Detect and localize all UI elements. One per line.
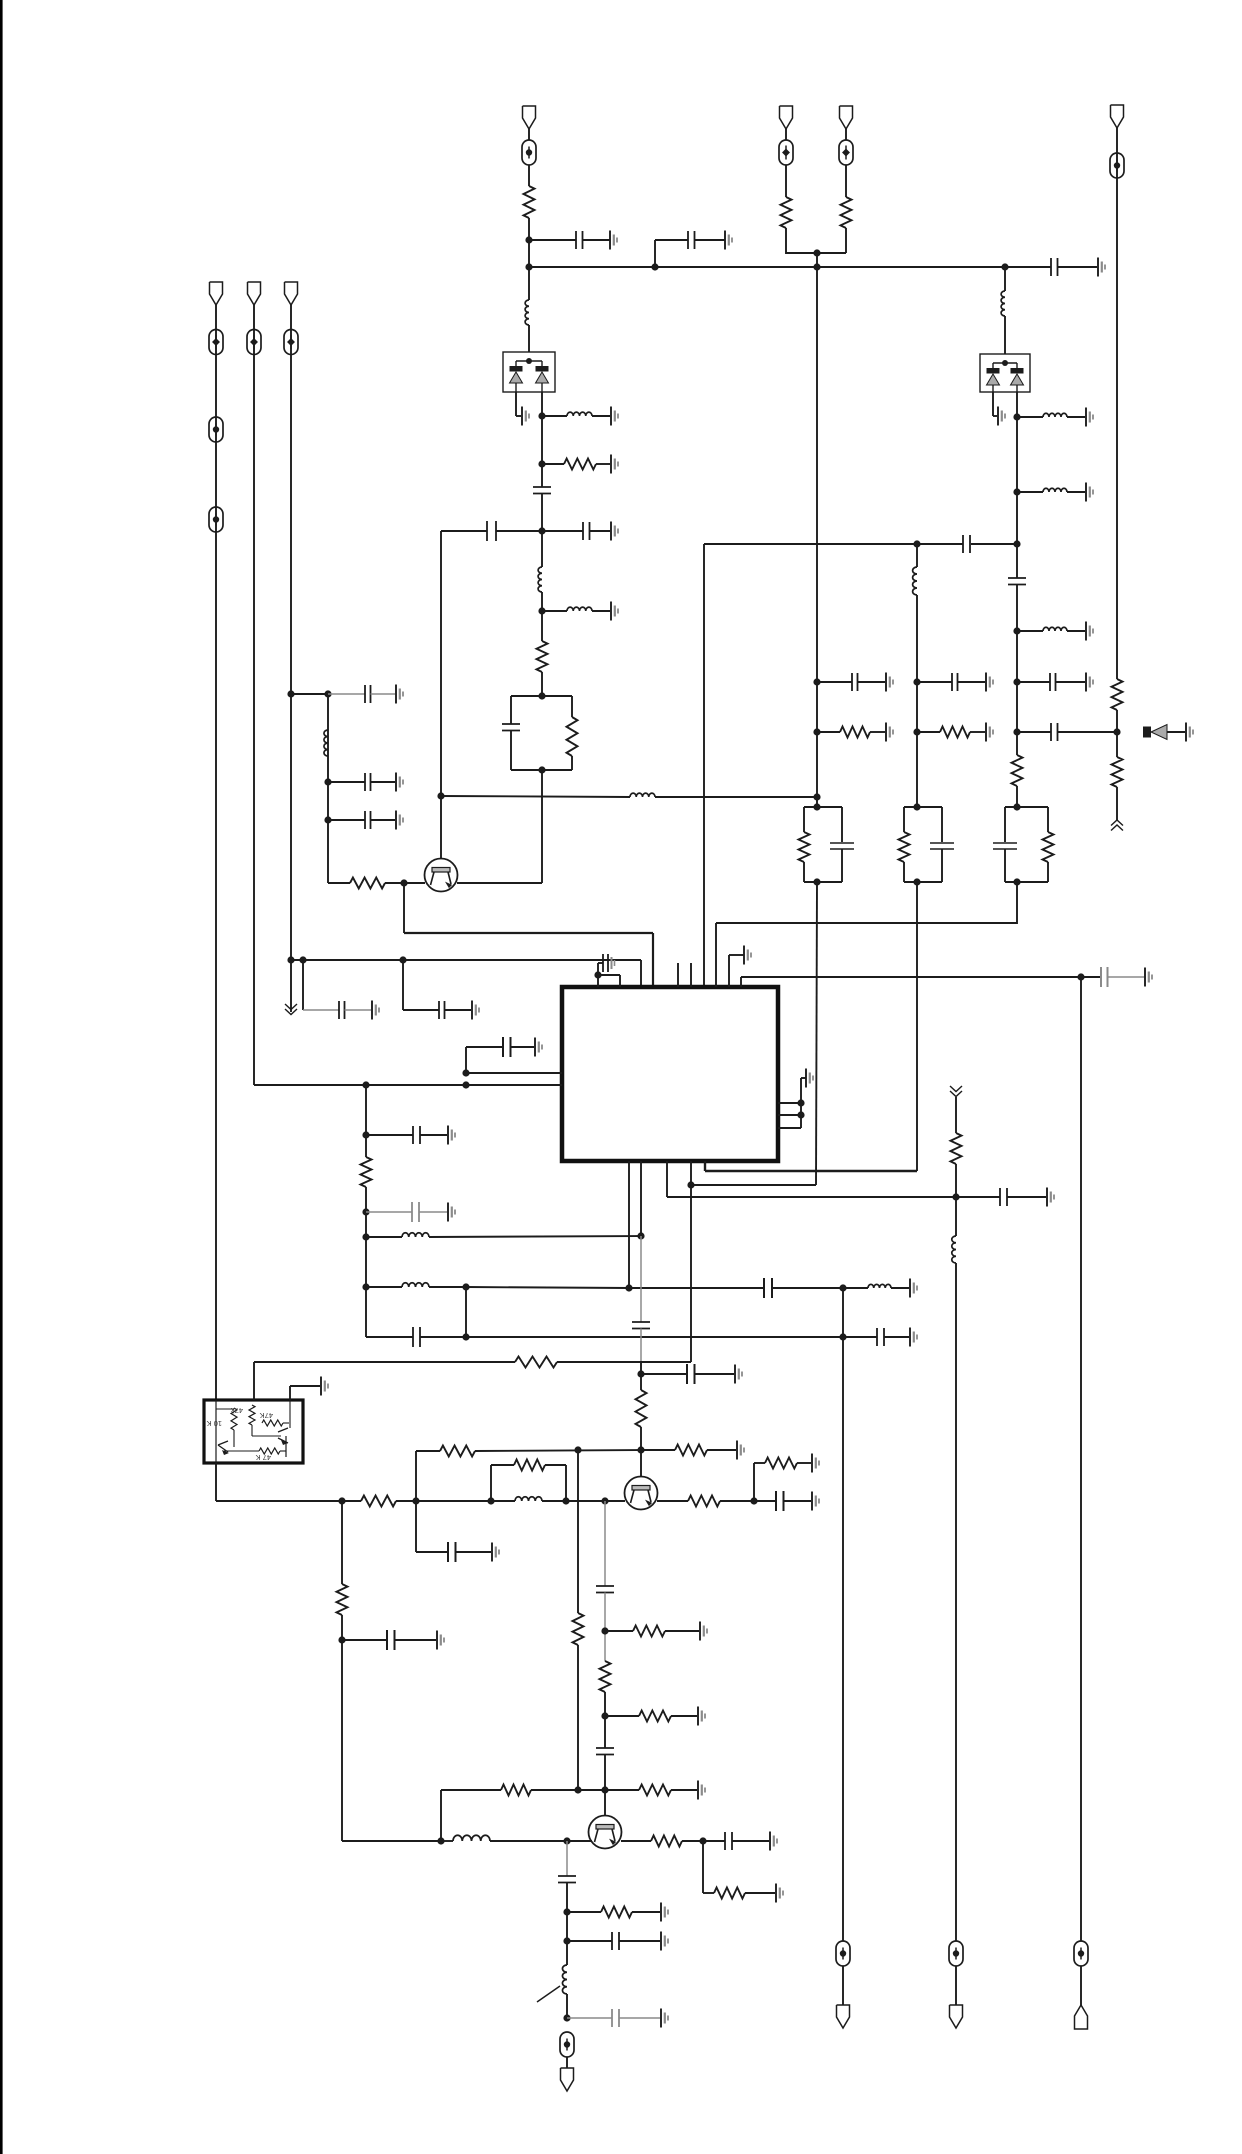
- node H4: [601, 1786, 608, 1793]
- capacitor C5: [542, 522, 610, 540]
- wire: [655, 796, 817, 798]
- node D1j: [839, 1333, 846, 1340]
- ground: [698, 1707, 705, 1726]
- wire tank2 out: [916, 882, 918, 1171]
- ground: [812, 1454, 819, 1473]
- capacitor C1: [529, 231, 610, 249]
- capacitor C6: [328, 811, 395, 829]
- tuning slash: [537, 1986, 560, 2002]
- ground: [611, 407, 618, 426]
- resistor R10: [917, 727, 985, 738]
- node L1a: [362, 1081, 369, 1088]
- node B8: [813, 793, 820, 800]
- box X1: [204, 1400, 303, 1463]
- capacitor C14: [817, 673, 885, 691]
- wire: [342, 1615, 441, 1841]
- inductor L14: [952, 1236, 956, 1263]
- connector J1: [523, 106, 536, 129]
- wire: [845, 129, 847, 140]
- wire: [1016, 392, 1018, 578]
- wire: [291, 693, 328, 695]
- ground: [448, 1203, 455, 1222]
- wire: [1116, 710, 1118, 757]
- wire: [465, 1287, 467, 1337]
- resistor R7: [1112, 679, 1123, 710]
- ground: [492, 1543, 499, 1562]
- wire pin thick: [705, 1161, 917, 1171]
- node A18: [813, 249, 820, 256]
- connector J2: [210, 282, 223, 305]
- ground: [396, 773, 403, 792]
- ground: [812, 1492, 819, 1511]
- wire: [254, 305, 366, 1085]
- wire: [955, 1164, 957, 1236]
- wire: [916, 544, 918, 807]
- wire: [577, 1645, 579, 1790]
- resistor R18: [361, 1496, 396, 1507]
- resistor R23: [600, 1661, 611, 1692]
- node T3a: [1013, 803, 1020, 810]
- ground: [1086, 622, 1093, 641]
- wire: [785, 165, 787, 197]
- capacitor C3: [533, 487, 551, 494]
- capacitor Cx: [603, 954, 615, 972]
- wire: [604, 1593, 606, 1662]
- RL pair: [491, 1460, 566, 1502]
- capacitor C35: [567, 1932, 660, 1950]
- resistor R30: [567, 1907, 660, 1918]
- resistor R11: [1012, 755, 1023, 786]
- capacitor C24: [843, 1328, 909, 1346]
- ferrite bead FB9: [1110, 153, 1124, 178]
- wire y1450: [416, 1450, 641, 1451]
- resistor R3: [537, 641, 548, 672]
- page border bar: [0, 0, 3, 2154]
- connector J3: [248, 282, 261, 305]
- inductor L15: [491, 1497, 566, 1501]
- ground: [1086, 673, 1093, 692]
- capacitor C16: [1017, 673, 1085, 691]
- wire y1501: [216, 1500, 440, 1502]
- resistor R25: [605, 1785, 697, 1796]
- capacitor C26: [632, 1322, 650, 1329]
- ground: [396, 811, 403, 830]
- resistor R2: [542, 459, 610, 470]
- wire: [290, 305, 292, 1012]
- node D1c: [362, 1233, 369, 1240]
- node D1g: [625, 1284, 632, 1291]
- ferrite bead FB7: [779, 140, 793, 165]
- wire: [290, 1386, 320, 1400]
- ground: [1098, 258, 1105, 277]
- wire: [341, 1501, 343, 1584]
- wire bus VCC: [529, 266, 1005, 268]
- ground: [1086, 483, 1093, 502]
- capacitor C9: [303, 1001, 371, 1019]
- connector J11: [1075, 2005, 1088, 2029]
- node B9: [1077, 973, 1084, 980]
- IC U1: [562, 987, 778, 1161]
- capacitor C13: [1008, 578, 1026, 585]
- capacitor C36: [567, 2009, 660, 2027]
- inductor L3: [538, 567, 542, 592]
- wire: [654, 240, 656, 267]
- ground: [1186, 723, 1193, 742]
- wire: [604, 1692, 606, 1748]
- wire x817 vertical: [816, 267, 818, 807]
- wire: [528, 129, 530, 140]
- ground: [611, 455, 618, 474]
- node B4: [813, 728, 820, 735]
- wire: [955, 1263, 957, 1941]
- ground: [770, 1832, 777, 1851]
- node A6: [538, 527, 545, 534]
- ground: [744, 946, 751, 965]
- connector J4: [285, 282, 298, 305]
- ground: [1086, 408, 1093, 427]
- svg-text:10 K: 10 K: [207, 1419, 222, 1428]
- inductor L12: [366, 1283, 466, 1287]
- capacitor C10: [403, 1001, 471, 1019]
- node A20: [1001, 263, 1008, 270]
- wire: [457, 770, 542, 883]
- wire: [366, 1084, 466, 1086]
- node A14: [287, 690, 294, 697]
- ground: [535, 1038, 542, 1057]
- wire IC pin x704: [703, 544, 705, 987]
- wire y1362: [254, 1361, 691, 1363]
- ground: [986, 673, 993, 692]
- ground: [998, 407, 1005, 426]
- capacitor C19: [503, 1037, 534, 1057]
- wire y1337: [466, 1336, 843, 1338]
- wire pin: [740, 977, 742, 987]
- inductor L7: [1017, 413, 1085, 417]
- ground: [910, 1279, 917, 1298]
- ground: [910, 1328, 917, 1347]
- inductor L10: [630, 793, 655, 797]
- node R1b: [797, 1111, 804, 1118]
- resistor R13: [951, 1133, 962, 1164]
- node B3: [1013, 678, 1020, 685]
- ferrite bead FB12: [949, 1941, 963, 1966]
- wire: [441, 796, 630, 797]
- wire: [754, 1463, 765, 1501]
- capacitor C20: [366, 1126, 447, 1144]
- capacitor C12: [917, 535, 1017, 553]
- wire: [466, 1047, 503, 1073]
- node D1i: [462, 1333, 469, 1340]
- capacitor C30: [342, 1630, 436, 1650]
- resistor R4: [328, 878, 404, 889]
- resistor R21: [337, 1584, 348, 1615]
- wire pin: [628, 1161, 630, 1288]
- ferrite bead FB4: [209, 507, 223, 532]
- inductor L6: [1001, 291, 1005, 316]
- wire: [541, 672, 543, 696]
- capacitor C11: [1005, 258, 1097, 276]
- wire: [566, 1994, 568, 2020]
- ferrite bead FB5: [247, 330, 261, 355]
- resistor R28: [651, 1836, 703, 1847]
- inductor L18: [1017, 627, 1085, 631]
- node G5: [601, 1497, 608, 1504]
- wire: [640, 1329, 642, 1363]
- wire: [845, 165, 847, 197]
- wire pin: [778, 1114, 801, 1116]
- wire emitter: [621, 1840, 651, 1842]
- ground: [735, 1365, 742, 1384]
- resistor R16: [440, 1446, 475, 1457]
- wire long to IC: [404, 932, 653, 934]
- wire: [403, 883, 405, 933]
- node I2: [563, 1937, 570, 1944]
- ground: [610, 231, 617, 250]
- ferrite bead FB10: [560, 2032, 574, 2057]
- resistor R8: [1112, 757, 1123, 787]
- resistor R24: [605, 1711, 697, 1722]
- resistor R26: [501, 1785, 531, 1796]
- wire pin: [690, 1161, 692, 1362]
- node A8: [538, 692, 545, 699]
- connector J5: [780, 106, 793, 129]
- chassis arrow: [285, 1004, 297, 1015]
- wire: [291, 960, 641, 987]
- svg-text:47K: 47K: [260, 1411, 273, 1420]
- transistor Q1: [425, 859, 458, 892]
- wire LC bottom: [366, 1336, 466, 1338]
- node A19: [813, 263, 820, 270]
- wire y1790: [441, 1789, 605, 1791]
- transistor Q2: [625, 1477, 658, 1510]
- node D1h: [839, 1284, 846, 1291]
- connector J8: [561, 2068, 574, 2091]
- node R1a: [797, 1099, 804, 1106]
- node T2b: [913, 878, 920, 885]
- node A10: [400, 879, 407, 886]
- node F2: [637, 1446, 644, 1453]
- ferrite bead FB2: [209, 330, 223, 355]
- ground: [886, 673, 893, 692]
- capacitor C27: [641, 1364, 734, 1384]
- resistor R27: [573, 1613, 584, 1645]
- ground: [437, 1631, 444, 1650]
- wire: [566, 2057, 568, 2068]
- node H8: [699, 1837, 706, 1844]
- ferrite bead FB3: [209, 417, 223, 442]
- node H5: [574, 1786, 581, 1793]
- dual diode D1: [503, 352, 555, 392]
- ferrite bead FB1: [522, 140, 536, 165]
- connector J7: [1111, 105, 1124, 128]
- resistor R9: [817, 727, 885, 738]
- wire: [541, 531, 543, 567]
- resistor R14: [515, 1357, 557, 1368]
- resistor R17: [641, 1445, 736, 1456]
- node H6: [437, 1837, 444, 1844]
- wire: [566, 1841, 568, 1876]
- wire: [640, 1427, 642, 1477]
- node D1f: [462, 1283, 469, 1290]
- wire: [567, 1840, 592, 1842]
- ground: [725, 231, 732, 250]
- node L1b: [462, 1081, 469, 1088]
- wire: [1004, 316, 1006, 354]
- node A25: [913, 540, 920, 547]
- resistor R20: [765, 1458, 811, 1469]
- chassis arrow: [950, 1086, 962, 1097]
- svg-text:47 K: 47 K: [256, 1453, 271, 1462]
- ground: [776, 1884, 783, 1903]
- wire y543: [704, 543, 917, 545]
- node A13: [324, 690, 331, 697]
- wire: [816, 253, 818, 267]
- wire: [402, 960, 404, 1010]
- node D1e: [362, 1283, 369, 1290]
- wire: [993, 392, 997, 416]
- inductor L2: [542, 412, 610, 416]
- wire: [604, 1501, 606, 1586]
- node U1 xtal: [594, 963, 620, 987]
- wire: [604, 1755, 606, 1817]
- node A11: [324, 816, 331, 823]
- wire: [440, 1500, 491, 1502]
- ground: [1145, 968, 1152, 987]
- ground: [986, 723, 993, 742]
- RC tank T2: [799, 807, 855, 882]
- ferrite bead FB6: [284, 330, 298, 355]
- wire base: [404, 882, 425, 884]
- wire: [1080, 1966, 1082, 2005]
- node C1a: [687, 1181, 694, 1188]
- wire x843: [842, 1288, 844, 1941]
- wire y1288: [466, 1287, 629, 1288]
- node A22: [1013, 413, 1020, 420]
- wire: [1016, 786, 1018, 807]
- wire: [566, 1500, 625, 1502]
- node B1: [813, 678, 820, 685]
- wire pin: [715, 923, 717, 987]
- transistor Q3: [589, 1816, 622, 1849]
- wire: [440, 1790, 442, 1841]
- wire: [253, 1362, 255, 1400]
- capacitor C32: [596, 1748, 614, 1755]
- ground: [698, 1781, 705, 1800]
- node A7: [538, 607, 545, 614]
- capacitor C17: [1017, 723, 1117, 741]
- node G3: [487, 1497, 494, 1504]
- RC tank T3: [899, 807, 955, 882]
- wire: [566, 1883, 568, 1966]
- resistor R15: [636, 1390, 647, 1427]
- wire: [215, 305, 217, 1400]
- capacitor C29: [754, 1491, 811, 1511]
- wire: [528, 325, 530, 352]
- node A24: [1013, 540, 1020, 547]
- node D1b: [362, 1208, 369, 1215]
- node E1: [952, 1193, 959, 1200]
- capacitor C22: [629, 1278, 843, 1298]
- wire: [302, 960, 304, 1010]
- connector J9: [837, 2005, 850, 2028]
- ground: [1047, 1188, 1054, 1207]
- capacitor C2: [655, 231, 725, 249]
- node H1: [338, 1636, 345, 1643]
- node T1a: [813, 803, 820, 810]
- dual diode D2: [980, 354, 1030, 392]
- node T2a: [913, 803, 920, 810]
- node G6: [750, 1497, 757, 1504]
- resistor R29: [714, 1888, 775, 1899]
- node D1d: [637, 1232, 644, 1239]
- wire: [955, 1966, 957, 2005]
- ground: [522, 407, 529, 426]
- wire pin gnd: [729, 955, 744, 987]
- ground: [661, 1932, 668, 1951]
- ground: [886, 723, 893, 742]
- ground: [661, 2009, 668, 2028]
- node A16: [299, 956, 306, 963]
- node G2: [412, 1497, 419, 1504]
- wire: [842, 1966, 844, 2005]
- node B2: [913, 678, 920, 685]
- wire: [541, 592, 543, 641]
- node F3: [574, 1446, 581, 1453]
- inductor L1: [525, 300, 529, 325]
- ground: [472, 1001, 479, 1020]
- wire: [415, 1451, 417, 1552]
- wire emitter: [657, 1500, 688, 1502]
- node D1a: [362, 1131, 369, 1138]
- wire: [1116, 787, 1118, 820]
- wire: [1116, 128, 1118, 679]
- wire: [541, 494, 543, 532]
- wire pin: [778, 1078, 806, 1128]
- resistor R19: [688, 1496, 754, 1507]
- node F1: [637, 1370, 644, 1377]
- capacitor C15: [917, 673, 985, 691]
- node G1: [338, 1497, 345, 1504]
- node A15: [287, 956, 294, 963]
- wire double: [466, 1073, 562, 1085]
- capacitor C8: [328, 685, 395, 703]
- capacitor C21: [366, 1202, 447, 1222]
- capacitor C4: [441, 521, 542, 541]
- wire: [365, 1085, 367, 1157]
- wire tank1 out: [816, 882, 817, 1185]
- wire: [1004, 267, 1006, 291]
- ground: [611, 602, 618, 621]
- wire: [528, 218, 530, 267]
- node I1: [563, 1908, 570, 1915]
- node A23: [1013, 488, 1020, 495]
- inductor L5: [324, 730, 328, 756]
- RC tank T1: [502, 696, 578, 770]
- diode D3: [1143, 725, 1185, 740]
- node H3: [601, 1712, 608, 1719]
- ferrite bead FB11: [836, 1941, 850, 1966]
- capacitor C34: [558, 1876, 576, 1883]
- wire: [365, 1187, 367, 1337]
- node A21: [1113, 728, 1120, 735]
- chassis arrow: [1111, 820, 1123, 831]
- ground: [396, 685, 403, 704]
- resistor R5: [781, 197, 792, 228]
- wire pin: [667, 1161, 956, 1197]
- wire tank3 out: [716, 882, 1017, 923]
- node G4: [562, 1497, 569, 1504]
- node B5: [913, 728, 920, 735]
